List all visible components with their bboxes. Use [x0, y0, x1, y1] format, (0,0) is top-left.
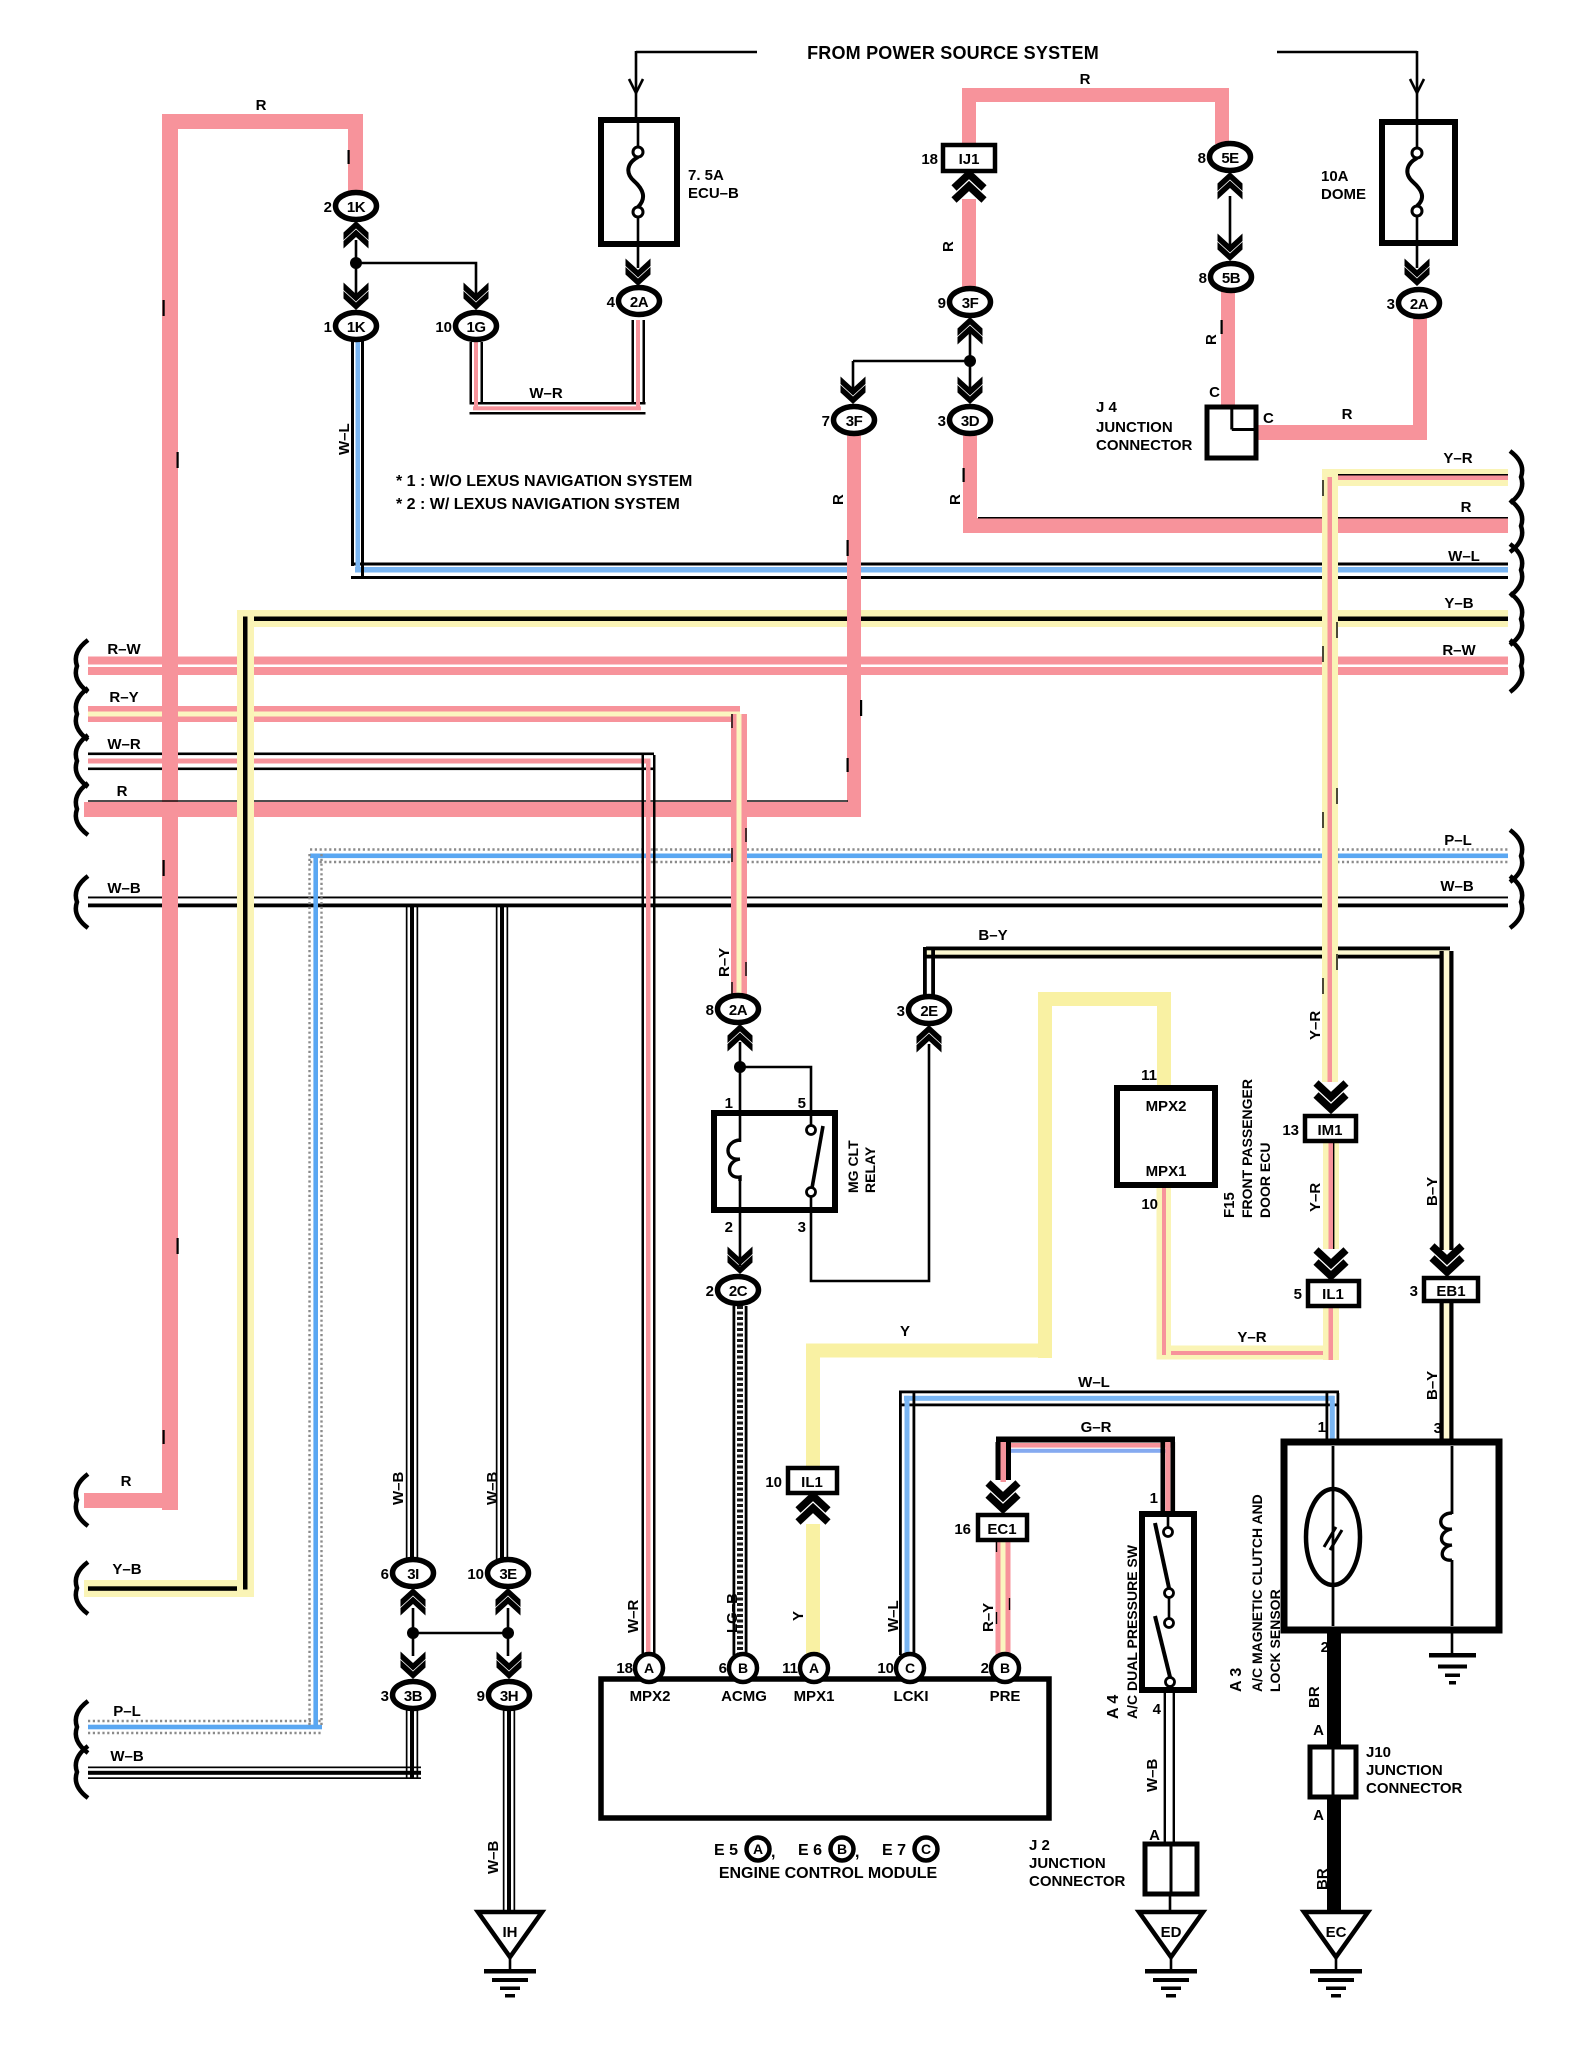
wire B-Y vertical x1447 (EB1 to clutch pin 3) [1440, 1301, 1454, 1444]
ECM footer E5 E6 E7 [714, 1838, 938, 1862]
svg-text:Y–B: Y–B [112, 1561, 141, 1578]
svg-text:10A: 10A [1321, 168, 1349, 185]
svg-text:W–R: W–R [529, 385, 563, 402]
oval 2A pin4 [619, 288, 660, 315]
svg-text:B: B [1000, 1660, 1010, 1676]
ECM engine control module box [601, 1679, 1049, 1818]
svg-text:3: 3 [1387, 296, 1395, 313]
svg-text:6: 6 [719, 1660, 727, 1677]
svg-text:W–L: W–L [1078, 1374, 1110, 1391]
brace left W-R [76, 735, 88, 787]
arrow into 1G#10 [464, 283, 489, 311]
wire ECU-B fuse to 2A#4 [637, 244, 640, 268]
node junction dot [350, 257, 362, 269]
ECU F15 front passenger door [1117, 1088, 1215, 1185]
svg-text:ED: ED [1161, 1924, 1182, 1941]
svg-text:8: 8 [1199, 270, 1207, 287]
svg-text:11: 11 [1141, 1067, 1157, 1084]
svg-text:,: , [855, 1844, 859, 1861]
svg-text:1K: 1K [347, 319, 366, 336]
svg-text:E 7: E 7 [882, 1842, 906, 1859]
ground triangle ED [1139, 1912, 1203, 1998]
brace left Y-B [76, 1562, 88, 1614]
arrow into 2A#3 [1405, 259, 1430, 287]
svg-text:3: 3 [798, 1219, 806, 1236]
svg-text:3I: 3I [407, 1566, 419, 1583]
wire Y (IL1 corner to x1045) horizontal [806, 1344, 1052, 1358]
wire from power source to ECU-B fuse [629, 51, 757, 120]
svg-text:A: A [1149, 1827, 1160, 1844]
svg-text:JUNCTION: JUNCTION [1096, 419, 1173, 436]
svg-text:1: 1 [725, 1095, 733, 1112]
brace left P-L [76, 1701, 88, 1753]
wire P-L vertical x315 [310, 854, 322, 1729]
brace left R-Y [76, 688, 88, 740]
svg-text:J 2: J 2 [1029, 1837, 1050, 1854]
svg-text:10: 10 [765, 1474, 782, 1491]
arrow into 1K#1 [344, 283, 369, 311]
svg-text:Y: Y [900, 1323, 910, 1340]
svg-text:R–W: R–W [107, 641, 141, 658]
svg-text:A 4: A 4 [1105, 1695, 1122, 1719]
svg-text:R: R [1342, 406, 1353, 423]
svg-text:CONNECTOR: CONNECTOR [1096, 437, 1193, 454]
wire 5E to 5B link [1229, 196, 1232, 250]
svg-text:ENGINE CONTROL MODULE: ENGINE CONTROL MODULE [719, 1865, 938, 1882]
svg-text:LOCK SENSOR: LOCK SENSOR [1267, 1589, 1283, 1692]
svg-text:3: 3 [938, 413, 946, 430]
oval 3F pin9 [950, 289, 991, 316]
oval 3E pin10 [488, 1560, 529, 1587]
wire R-Y vertical x1003 (EC1 to ECM pin 2-B) [996, 1540, 1011, 1656]
svg-text:W–R: W–R [107, 736, 141, 753]
arrow above IL1#5 (double chevron down) [1316, 1250, 1346, 1276]
wire 3I/3E junction to 3B/3H [413, 1608, 508, 1656]
brace right R [1510, 500, 1522, 552]
oval 5B pin8 [1211, 264, 1252, 291]
svg-text:ACMG: ACMG [721, 1688, 767, 1705]
svg-text:1: 1 [1318, 1419, 1326, 1436]
wire W-B bottom-left segment [88, 1767, 421, 1780]
svg-text:2: 2 [706, 1283, 714, 1300]
svg-text:5E: 5E [1221, 150, 1239, 167]
brace right W-L [1510, 544, 1522, 596]
svg-text:C: C [1263, 410, 1274, 427]
svg-text:CONNECTOR: CONNECTOR [1029, 1873, 1126, 1890]
svg-text:J 4: J 4 [1096, 399, 1118, 416]
svg-text:IM1: IM1 [1317, 1122, 1342, 1139]
fuse 10A DOME [1382, 122, 1455, 243]
ground triangle EC [1304, 1912, 1368, 1998]
svg-text:J10: J10 [1366, 1744, 1391, 1761]
wire Y-R lower horizontal (F15 pin10 to IL1 x1331) [1157, 1346, 1338, 1360]
brace right Y-R [1510, 451, 1522, 503]
wire B-Y bus (2E to x1447) [926, 947, 1450, 959]
svg-text:A: A [809, 1660, 819, 1676]
arrow into 3F#7 [841, 377, 866, 405]
svg-text:3H: 3H [500, 1688, 518, 1705]
svg-text:2A: 2A [729, 1002, 748, 1019]
svg-text:10: 10 [877, 1660, 894, 1677]
svg-text:ECU–B: ECU–B [688, 185, 739, 202]
svg-text:* 1 : W/O LEXUS NAVIGATION SYS: * 1 : W/O LEXUS NAVIGATION SYSTEM [396, 473, 692, 490]
svg-text:3F: 3F [846, 413, 863, 430]
arrow into 2E [917, 1025, 942, 1053]
svg-text:MPX1: MPX1 [1146, 1163, 1187, 1180]
svg-text:3: 3 [1434, 1420, 1442, 1437]
svg-text:5: 5 [1294, 1286, 1302, 1303]
wire R-Y bus (left brace to x738) [88, 706, 740, 722]
wire G-R horizontal (EC1 to pressure sw pin1) [996, 1437, 1175, 1453]
svg-text:IL1: IL1 [801, 1474, 823, 1491]
arrow into 2A#8 [728, 1024, 753, 1052]
wire Y-B bottom-left segment [84, 1580, 254, 1597]
svg-text:W–B: W–B [485, 1841, 502, 1875]
ground bars (clutch sensor) [1429, 1653, 1476, 1685]
svg-text:LCKI: LCKI [894, 1688, 929, 1705]
connector EB1 [1424, 1278, 1478, 1301]
arrow above EB1 (double chevron down) [1432, 1246, 1462, 1272]
svg-text:R–Y: R–Y [980, 1603, 997, 1632]
svg-text:4: 4 [607, 294, 616, 311]
svg-text:18: 18 [921, 151, 938, 168]
svg-text:13: 13 [1282, 1122, 1299, 1139]
svg-text:1G: 1G [466, 319, 485, 336]
arrow into 3I [401, 1588, 426, 1616]
svg-text:A: A [644, 1660, 654, 1676]
svg-text:Y–B: Y–B [1444, 595, 1473, 612]
svg-text:10: 10 [435, 319, 452, 336]
svg-text:2A: 2A [1410, 296, 1429, 313]
connector IM1 [1305, 1116, 1356, 1141]
brace left W-B bottom [76, 1746, 88, 1798]
wire Y-B vertical x245 [237, 610, 254, 1597]
wire W-R short (1G to 2A#4) horizontal [470, 402, 646, 415]
brace left R [76, 783, 88, 835]
wire 1K#2 junction to 1K#1 and 1G [356, 240, 476, 300]
arrow above EC1 (double chevron down) [988, 1483, 1018, 1509]
wire P-L bus (corner x315 to right brace) [310, 850, 1508, 863]
oval 5E pin8 [1210, 144, 1251, 171]
wire W-R bus (left brace to x648) [88, 753, 654, 771]
svg-text:5: 5 [798, 1095, 806, 1112]
svg-text:R–Y: R–Y [716, 948, 733, 977]
svg-text:G–R: G–R [1081, 1419, 1112, 1436]
wire Y vertical x1045 [1038, 992, 1052, 1358]
svg-text:R: R [947, 494, 964, 505]
svg-text:W–B: W–B [1440, 878, 1474, 895]
wire R 3D#3 down to R bus y526 to right brace [963, 433, 1508, 533]
svg-text:W–L: W–L [1448, 548, 1480, 565]
svg-text:R–Y: R–Y [109, 689, 138, 706]
wire Y vertical x813 (ECM pin 11-A to IL1, IL1 up to corner) [806, 1344, 820, 1657]
wire Y-R vertical x1331 IM1 to IL1 [1323, 1141, 1339, 1249]
oval 2A pin3 [1399, 290, 1440, 317]
svg-text:8: 8 [1198, 150, 1206, 167]
brace left W-B [76, 876, 88, 928]
svg-text:C: C [905, 1660, 915, 1676]
wire W-B bus full width [88, 897, 1508, 908]
svg-text:W–R: W–R [625, 1600, 642, 1634]
svg-text:E 6: E 6 [798, 1842, 822, 1859]
svg-text:Y: Y [790, 1611, 807, 1621]
svg-text:BR: BR [1306, 1686, 1323, 1708]
svg-text:A: A [1313, 1722, 1324, 1739]
wire G-R vertical stub into EC1 arrow [996, 1442, 1012, 1482]
wire W-L lower bus (LCKI to clutch pin1) [899, 1391, 1339, 1407]
wire Y upper horizontal (x1045 to F15 pin 11) [1038, 992, 1171, 1006]
wire relay pin 2 to 2C [739, 1210, 742, 1266]
svg-text:3: 3 [1410, 1283, 1418, 1300]
svg-text:10: 10 [1141, 1196, 1158, 1213]
oval 3D pin3 [950, 407, 991, 434]
switch A4 A/C dual pressure box [1142, 1514, 1194, 1692]
brace right W-B [1510, 876, 1522, 928]
sensor A3 A/C magnetic clutch and lock box [1284, 1442, 1499, 1630]
wire Y-R vertical x1164 (F15 pin10 down) [1157, 1185, 1172, 1359]
wire W-B vertical x1169 (pressure sw to J2) [1164, 1690, 1175, 1846]
svg-text:3: 3 [381, 1688, 389, 1705]
svg-text:B–Y: B–Y [978, 927, 1007, 944]
wire B-Y vertical x1447 (bus to EB1) [1440, 951, 1454, 1250]
svg-text:2: 2 [725, 1219, 733, 1236]
svg-text:2C: 2C [729, 1283, 748, 1300]
svg-text:R: R [121, 1473, 132, 1490]
svg-text:EC: EC [1326, 1924, 1347, 1941]
relay MG CLT box [714, 1113, 835, 1210]
svg-text:4: 4 [1153, 1701, 1162, 1718]
svg-text:2E: 2E [920, 1003, 938, 1020]
arrow into 2A#4 [626, 259, 651, 287]
svg-text:B: B [738, 1660, 748, 1676]
svg-text:1K: 1K [347, 199, 366, 216]
svg-text:* 2 : W/ LEXUS NAVIGATION SYST: * 2 : W/ LEXUS NAVIGATION SYSTEM [396, 496, 680, 513]
wire W-L vertical x907 (to ECM pin 10-C) [899, 1393, 915, 1656]
svg-text:A: A [1313, 1807, 1324, 1824]
wire W-B vertical x509 (3H to IH ground) [503, 1710, 515, 1915]
arrow into 3F#9 [958, 317, 983, 345]
svg-text:DOME: DOME [1321, 186, 1366, 203]
wire R top-middle run (IJ1 over to 5E) [962, 88, 1229, 146]
svg-text:MPX1: MPX1 [794, 1688, 835, 1705]
svg-text:RELAY: RELAY [862, 1146, 878, 1193]
svg-text:Y–R: Y–R [1443, 450, 1472, 467]
wire from power source to DOME fuse [1277, 51, 1424, 122]
svg-text:3B: 3B [404, 1688, 423, 1705]
brace right P-L [1510, 830, 1522, 882]
brace right R-W [1510, 640, 1522, 692]
wire W-B vertical x502 (to 3E) [496, 906, 508, 1560]
wire LG-B vertical x740 (2C to ECM pin 6-B) [733, 1306, 748, 1656]
wire W-R vertical x648 (bus to ECM pin 18-A) [642, 755, 656, 1655]
svg-text:8: 8 [706, 1002, 714, 1019]
junction connector J10 [1310, 1747, 1356, 1797]
node junction dot [734, 1061, 746, 1073]
svg-text:R: R [1461, 499, 1472, 516]
wire G-R vertical x1168 (corner to pressure sw pin 1) [1161, 1442, 1176, 1516]
oval 3I pin6 [393, 1560, 434, 1587]
svg-text:R: R [830, 494, 847, 505]
wire clutch sensor to ground [1451, 1630, 1454, 1656]
brace right Y-B [1510, 593, 1522, 645]
svg-text:9: 9 [938, 295, 946, 312]
svg-text:PRE: PRE [990, 1688, 1021, 1705]
oval 2A pin8 [718, 996, 759, 1023]
svg-text:C: C [1209, 384, 1220, 401]
svg-text:1: 1 [324, 319, 332, 336]
arrow into 3E [496, 1588, 521, 1616]
svg-text:FRONT PASSENGER: FRONT PASSENGER [1239, 1079, 1255, 1218]
svg-text:5B: 5B [1222, 270, 1241, 287]
junction connector J2 [1145, 1844, 1197, 1894]
oval 1G pin10 [456, 313, 497, 340]
wire R top-left run (brace bottom-left, up x170, across to 1K#2) [84, 114, 363, 1510]
wire Y-B bus (corner x245 to right brace) [237, 610, 1508, 627]
svg-text:R: R [1203, 334, 1220, 345]
svg-text:IL1: IL1 [1322, 1286, 1344, 1303]
svg-text:CONNECTOR: CONNECTOR [1366, 1780, 1463, 1797]
svg-text:R: R [940, 241, 957, 252]
wire Y-R long vertical x1330 [1322, 469, 1338, 1082]
svg-text:1: 1 [1150, 1490, 1158, 1507]
arrow below IL1#10 (double chevron up) [798, 1496, 828, 1522]
svg-text:9: 9 [477, 1688, 485, 1705]
svg-text:R–W: R–W [1442, 642, 1476, 659]
svg-text:3D: 3D [961, 413, 980, 430]
svg-text:3: 3 [897, 1003, 905, 1020]
wire Y-R vertical x1331 IL1 down to corner [1323, 1306, 1339, 1360]
arrow into 2C [728, 1247, 753, 1275]
svg-text:MG CLT: MG CLT [845, 1140, 861, 1193]
svg-text:W–L: W–L [336, 423, 353, 455]
svg-text:W–L: W–L [885, 1600, 902, 1632]
svg-text:A: A [753, 1841, 763, 1857]
svg-text:MPX2: MPX2 [630, 1688, 671, 1705]
junction connector J4 [1207, 407, 1256, 458]
svg-text:FROM POWER SOURCE SYSTEM: FROM POWER SOURCE SYSTEM [807, 43, 1099, 63]
svg-text:MPX2: MPX2 [1146, 1098, 1187, 1115]
svg-text:16: 16 [954, 1521, 971, 1538]
svg-text:6: 6 [381, 1566, 389, 1583]
svg-text:Y–R: Y–R [1307, 1183, 1324, 1212]
svg-text:,: , [771, 1844, 775, 1861]
arrow into 5E [1218, 172, 1243, 200]
connector EC1 [978, 1515, 1027, 1540]
fuse 7.5A ECU-B [601, 120, 677, 244]
svg-text:Y–R: Y–R [1307, 1011, 1324, 1040]
connector IL1 pin10 [788, 1468, 837, 1493]
svg-text:7: 7 [822, 413, 830, 430]
svg-text:LG–B: LG–B [724, 1593, 741, 1633]
svg-text:A 3: A 3 [1228, 1668, 1245, 1692]
arrow into 1K#2 [344, 221, 369, 249]
svg-text:P–L: P–L [1444, 832, 1472, 849]
svg-text:W–B: W–B [107, 880, 141, 897]
arrow below IJ1 (double chevron up) [954, 174, 984, 200]
svg-text:IJ1: IJ1 [959, 151, 980, 168]
oval 2C pin2 [718, 1277, 759, 1304]
svg-text:EC1: EC1 [987, 1521, 1016, 1538]
wire R IJ1 to 3F#9 [962, 199, 976, 291]
svg-text:2: 2 [981, 1660, 989, 1677]
wire W-R short verticals (1G and 2A#4) [470, 320, 646, 408]
oval 3F pin7 [834, 407, 875, 434]
oval 3B pin3 [393, 1682, 434, 1709]
wire BR thick black (clutch to J10 to EC) [1327, 1630, 1341, 1915]
node junction dot [964, 355, 976, 367]
svg-text:W–B: W–B [110, 1748, 144, 1765]
wire W-B vertical x412 (to 3I) [406, 906, 418, 1560]
svg-text:R: R [256, 97, 267, 114]
wire J2 to ED ground [1169, 1894, 1172, 1916]
svg-text:C: C [921, 1841, 931, 1857]
node junction dots [407, 1627, 419, 1639]
svg-text:JUNCTION: JUNCTION [1366, 1762, 1443, 1779]
oval 2E pin3 [909, 997, 950, 1024]
wire B-Y vertical x929 (bus to 2E) [923, 947, 935, 997]
svg-text:Y–R: Y–R [1237, 1329, 1266, 1346]
svg-text:2: 2 [1321, 1639, 1329, 1656]
svg-text:3F: 3F [962, 295, 979, 312]
wire Y-R top bus (corner x1330 to right brace) [1322, 469, 1508, 486]
brace left R-W [76, 640, 88, 692]
svg-text:IH: IH [503, 1924, 518, 1941]
arrow into 3B [401, 1652, 426, 1680]
connector IL1 pin5 [1308, 1281, 1359, 1306]
svg-text:B–Y: B–Y [1424, 1177, 1441, 1206]
svg-text:W–B: W–B [1144, 1759, 1161, 1793]
svg-text:11: 11 [782, 1660, 798, 1677]
wire P-L bottom-left segment [88, 1721, 322, 1733]
wire W-L vertical from 1K#1 [351, 340, 364, 579]
svg-text:2A: 2A [630, 294, 649, 311]
wire R-Y vertical x738 (bus to 2A#8) [731, 714, 747, 997]
wire R-W bus full width [88, 657, 1508, 676]
wire R J4 to 2A#3 [1256, 316, 1427, 440]
svg-text:W–B: W–B [390, 1472, 407, 1506]
ECM pin circles [635, 1654, 1019, 1682]
svg-text:W–B: W–B [484, 1472, 501, 1506]
wire R 5B to J4 [1221, 290, 1235, 408]
svg-text:3E: 3E [499, 1566, 517, 1583]
svg-text:EB1: EB1 [1436, 1283, 1465, 1300]
wire R 3F#7 down to R bus y809 with left brace [84, 433, 861, 817]
svg-text:10: 10 [467, 1566, 484, 1583]
wire W-B stub x413 (3B to bottom W-B bus) [406, 1710, 418, 1778]
ground triangle IH [478, 1912, 542, 1998]
svg-text:R: R [1080, 71, 1091, 88]
wire 2A#8 to MG CLT relay pins 1 and 5 [740, 1042, 811, 1113]
brace left R bottom [76, 1474, 88, 1526]
oval 1K pin1 [336, 313, 377, 340]
arrow into 3D#3 [958, 377, 983, 405]
arrow into 5B [1218, 234, 1243, 262]
arrow into 3H [497, 1652, 522, 1680]
connector IJ1 [943, 145, 995, 171]
wire relay pin 3 to 2E [811, 1044, 929, 1281]
wire W-L bus (1K to right brace) [351, 563, 1508, 580]
svg-text:A/C DUAL PRESSURE SW: A/C DUAL PRESSURE SW [1124, 1544, 1140, 1719]
oval 1K pin2 [336, 193, 377, 220]
svg-text:BR: BR [1314, 1868, 1331, 1890]
wire W-L vertical x1332 (into clutch pin 1) [1326, 1393, 1340, 1444]
wire Y vertical x1164 (into F15 pin 11) [1157, 992, 1171, 1090]
svg-text:F15: F15 [1221, 1192, 1238, 1218]
svg-text:P–L: P–L [113, 1703, 141, 1720]
wire DOME fuse to 2A#3 [1416, 243, 1419, 268]
svg-text:B–Y: B–Y [1424, 1371, 1441, 1400]
svg-text:7. 5A: 7. 5A [688, 167, 724, 184]
